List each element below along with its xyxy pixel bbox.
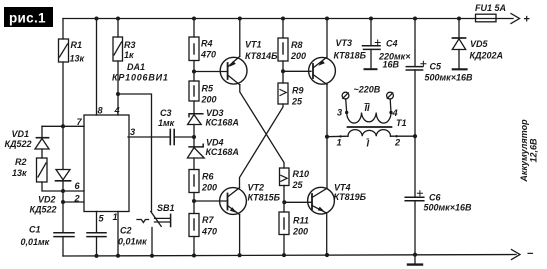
svg-text:С1: С1 bbox=[29, 225, 41, 235]
svg-text:R10: R10 bbox=[293, 169, 310, 179]
node pin4-junction bbox=[116, 92, 120, 96]
svg-text:470: 470 bbox=[201, 227, 217, 237]
svg-text:1мк: 1мк bbox=[158, 118, 175, 128]
transformer T1 bbox=[327, 92, 415, 137]
wire pin8 bbox=[96, 19, 98, 116]
svg-text:500мк×16В: 500мк×16В bbox=[424, 203, 473, 213]
resistor R1 bbox=[59, 19, 69, 127]
node R6-R7 bbox=[192, 199, 196, 203]
resistor R3 bbox=[113, 19, 123, 95]
svg-text:С3: С3 bbox=[160, 108, 172, 118]
wire pin1 bbox=[117, 212, 119, 256]
wire VT4 base bbox=[284, 201, 311, 203]
svg-text:С6: С6 bbox=[429, 193, 441, 203]
diode VD2 bbox=[56, 126, 71, 232]
wire pin6 bbox=[63, 190, 84, 192]
svg-text:КТ818Б: КТ818Б bbox=[334, 51, 367, 61]
diode VD5 bbox=[452, 19, 466, 70]
svg-text:С5: С5 bbox=[430, 62, 442, 72]
svg-text:−: − bbox=[527, 248, 533, 260]
svg-text:R1: R1 bbox=[71, 40, 83, 50]
svg-text:1: 1 bbox=[337, 138, 342, 148]
svg-text:470: 470 bbox=[200, 50, 216, 60]
capacitor C5 bbox=[406, 19, 426, 137]
svg-text:4: 4 bbox=[114, 106, 120, 116]
svg-text:КС168А: КС168А bbox=[206, 147, 239, 157]
wire pin7 bbox=[42, 125, 84, 127]
wire pin3 bbox=[128, 136, 170, 138]
svg-text:200: 200 bbox=[201, 183, 217, 193]
fuse FU1 bbox=[476, 14, 497, 22]
svg-text:DA1: DA1 bbox=[127, 62, 145, 72]
svg-text:II: II bbox=[365, 103, 371, 113]
svg-text:1к: 1к bbox=[124, 50, 134, 60]
wire VT1 collector cross bbox=[240, 85, 284, 168]
svg-text:13к: 13к bbox=[70, 54, 85, 64]
svg-text:КД202А: КД202А bbox=[470, 51, 504, 61]
svg-text:2: 2 bbox=[394, 138, 401, 148]
svg-text:R3: R3 bbox=[124, 40, 136, 50]
node R4-R5 bbox=[192, 70, 196, 74]
wire VT1 base bbox=[194, 71, 228, 73]
diode VD1 bbox=[35, 126, 49, 158]
svg-text:КТ819Б: КТ819Б bbox=[334, 192, 367, 202]
resistor R6 bbox=[189, 170, 199, 214]
svg-text:4: 4 bbox=[392, 108, 398, 118]
svg-text:R6: R6 bbox=[202, 172, 214, 182]
svg-text:8: 8 bbox=[98, 106, 104, 116]
node C5-C6-T1 bbox=[413, 134, 417, 138]
svg-text:0,01мк: 0,01мк bbox=[21, 237, 50, 247]
node dots top rail bbox=[95, 17, 462, 21]
svg-text:VT1: VT1 bbox=[245, 40, 262, 50]
svg-text:Т1: Т1 bbox=[396, 118, 407, 128]
resistor R11 bbox=[279, 212, 289, 256]
transistor VT1 bbox=[220, 19, 247, 85]
svg-text:6: 6 bbox=[75, 181, 81, 191]
resistor R7 bbox=[189, 214, 199, 257]
wire pin5 bbox=[96, 212, 98, 233]
svg-text:R11: R11 bbox=[293, 216, 309, 226]
svg-text:КД522: КД522 bbox=[5, 139, 32, 149]
wire VT3 base bbox=[283, 70, 311, 72]
svg-text:200: 200 bbox=[201, 95, 217, 105]
resistor R2 bbox=[37, 158, 64, 191]
node VT3-VT4-T1 bbox=[325, 135, 329, 139]
svg-text:13к: 13к bbox=[12, 168, 27, 178]
svg-text:КР1006ВИ1: КР1006ВИ1 bbox=[112, 73, 169, 83]
arrow plus output bbox=[511, 14, 520, 24]
svg-text:VT2: VT2 bbox=[248, 183, 265, 193]
svg-text:+: + bbox=[524, 14, 530, 26]
svg-text:3: 3 bbox=[130, 127, 135, 137]
svg-text:R8: R8 bbox=[291, 40, 303, 50]
wire bottom rail bbox=[63, 255, 516, 257]
resistor R10 bbox=[280, 168, 290, 212]
svg-text:25: 25 bbox=[291, 97, 303, 107]
capacitor C6 bbox=[405, 136, 424, 255]
svg-text:R7: R7 bbox=[202, 215, 214, 225]
svg-text:12,6В: 12,6В bbox=[529, 138, 539, 163]
wire VT2 base bbox=[194, 200, 228, 202]
svg-text:VD4: VD4 bbox=[206, 138, 224, 148]
svg-text:рис.1: рис.1 bbox=[9, 11, 46, 26]
svg-text:3: 3 bbox=[337, 108, 342, 118]
arrow minus output bbox=[512, 250, 521, 260]
svg-text:5: 5 bbox=[99, 214, 105, 224]
wire top rail bbox=[63, 18, 513, 20]
wire pin4 to SB1 bbox=[118, 94, 152, 212]
node R10-R11 bbox=[282, 200, 286, 204]
resistor R9 bbox=[278, 71, 288, 104]
op-amp U1 timer DA1 box bbox=[84, 115, 129, 212]
svg-text:SB1: SB1 bbox=[157, 203, 175, 213]
capacitor C3 bbox=[170, 130, 194, 145]
svg-text:VD5: VD5 bbox=[470, 39, 489, 49]
svg-text:С2: С2 bbox=[120, 226, 132, 236]
svg-text:I: I bbox=[367, 139, 370, 149]
svg-text:7: 7 bbox=[77, 117, 83, 127]
capacitor C2 bbox=[87, 233, 106, 256]
transistor VT2 bbox=[220, 188, 247, 256]
svg-text:200: 200 bbox=[292, 227, 308, 237]
svg-text:VD1: VD1 bbox=[12, 129, 30, 139]
wire VT3 collector bbox=[326, 85, 328, 137]
node pin2-junction bbox=[61, 200, 65, 204]
svg-text:R9: R9 bbox=[292, 86, 304, 96]
transistor VT3 bbox=[309, 19, 336, 85]
resistor R8 bbox=[278, 19, 288, 72]
zener VD4 bbox=[187, 137, 204, 170]
capacitor C1 bbox=[54, 233, 74, 256]
svg-text:КД522: КД522 bbox=[30, 205, 57, 215]
node pin6-junction bbox=[61, 189, 65, 193]
wire pin4 bbox=[117, 94, 119, 115]
svg-text:С4: С4 bbox=[386, 39, 398, 49]
resistor R4 bbox=[189, 19, 199, 72]
svg-text:VT4: VT4 bbox=[334, 183, 351, 193]
resistor R5 bbox=[189, 72, 199, 114]
switch SB1 bbox=[137, 212, 171, 257]
node C3-VD3-VD4 bbox=[192, 135, 196, 139]
label fig bbox=[4, 7, 53, 27]
svg-text:КТ815Б: КТ815Б bbox=[248, 193, 281, 203]
svg-text:КТ814Б: КТ814Б bbox=[245, 51, 278, 61]
svg-text:25: 25 bbox=[292, 180, 304, 190]
node dots bottom rail bbox=[95, 253, 418, 258]
wire R9 cross to VT2 bbox=[240, 104, 284, 188]
svg-text:1: 1 bbox=[113, 212, 118, 222]
node R8-R9 bbox=[281, 69, 285, 73]
transistor VT4 bbox=[308, 137, 335, 255]
svg-text:500мк×16В: 500мк×16В bbox=[425, 73, 474, 83]
node pin7-junction bbox=[61, 124, 65, 128]
svg-text:Аккумулятор: Аккумулятор bbox=[519, 119, 529, 183]
svg-text:VD2: VD2 bbox=[38, 195, 56, 205]
svg-text:R4: R4 bbox=[201, 39, 213, 49]
wire pin2 bbox=[63, 201, 84, 203]
svg-text:2: 2 bbox=[74, 194, 81, 204]
svg-text:16В: 16В bbox=[383, 60, 400, 70]
svg-text:R5: R5 bbox=[202, 84, 214, 94]
svg-text:VT3: VT3 bbox=[336, 38, 353, 48]
ground bbox=[408, 255, 422, 265]
capacitor C4 bbox=[363, 19, 381, 70]
svg-text:КС168А: КС168А bbox=[206, 118, 239, 128]
zener VD3 bbox=[188, 114, 203, 137]
svg-text:200: 200 bbox=[290, 51, 306, 61]
svg-text:R2: R2 bbox=[15, 157, 27, 167]
svg-text:0,01мк: 0,01мк bbox=[118, 237, 147, 247]
svg-text:~220В: ~220В bbox=[354, 85, 381, 95]
svg-text:VD3: VD3 bbox=[206, 108, 224, 118]
svg-text:FU1 5А: FU1 5А bbox=[475, 3, 506, 13]
